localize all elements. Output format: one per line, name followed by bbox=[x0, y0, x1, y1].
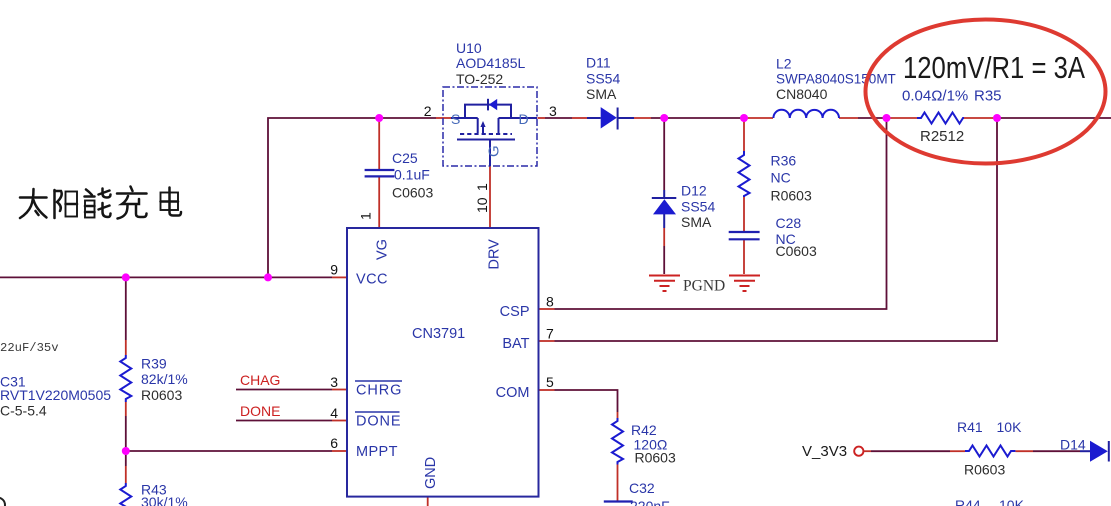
svg-text:BAT: BAT bbox=[502, 336, 529, 352]
svg-text:C28: C28 bbox=[776, 215, 802, 231]
char 电 bbox=[168, 188, 171, 211]
svg-text:0.1uF: 0.1uF bbox=[394, 167, 430, 183]
char 能 bbox=[86, 190, 92, 196]
svg-text:C0603: C0603 bbox=[392, 185, 433, 201]
wire red stub into U10 S bbox=[436, 117, 451, 119]
svg-text:8: 8 bbox=[546, 294, 554, 310]
svg-text:5: 5 bbox=[546, 374, 554, 390]
wire R39 top lead bbox=[125, 277, 127, 340]
svg-text:CSP: CSP bbox=[500, 304, 530, 320]
svg-text:VCC: VCC bbox=[356, 272, 388, 288]
svg-text:SS54: SS54 bbox=[681, 199, 715, 215]
svg-text:L2: L2 bbox=[776, 55, 792, 71]
junction node R36 tap bbox=[740, 114, 748, 122]
svg-text:3: 3 bbox=[330, 374, 338, 390]
svg-text:3: 3 bbox=[549, 103, 557, 119]
svg-text:10: 10 bbox=[474, 197, 490, 213]
svg-text:SWPA8040S150MT: SWPA8040S150MT bbox=[776, 72, 896, 87]
resistor R42 bbox=[612, 418, 623, 465]
svg-text:9: 9 bbox=[330, 262, 338, 278]
capacitor C25 bbox=[365, 170, 395, 176]
svg-text:SMA: SMA bbox=[681, 214, 712, 230]
wire DRV gate bbox=[489, 166, 491, 228]
svg-text:PGND: PGND bbox=[683, 278, 725, 295]
wire C28 to ground bbox=[743, 240, 745, 274]
wire R35 leads bbox=[887, 117, 918, 119]
svg-text:C25: C25 bbox=[392, 150, 418, 166]
svg-text:R2512: R2512 bbox=[920, 128, 964, 145]
svg-text:R41: R41 bbox=[957, 419, 983, 435]
text 太阳能充电 hand-drawn bbox=[20, 187, 181, 219]
resistor R43 bbox=[120, 483, 131, 506]
char 阳 bbox=[53, 190, 56, 218]
svg-text:6: 6 bbox=[330, 435, 338, 451]
svg-text:R39: R39 bbox=[141, 356, 167, 372]
svg-text:R0603: R0603 bbox=[141, 387, 182, 403]
svg-text:0.04Ω/1%: 0.04Ω/1% bbox=[902, 88, 968, 105]
wire C25 top lead bbox=[378, 118, 380, 169]
resistor R41 bbox=[965, 446, 1015, 457]
svg-text:2: 2 bbox=[424, 103, 432, 119]
svg-text:D11: D11 bbox=[586, 55, 611, 71]
svg-text:R35: R35 bbox=[974, 88, 1002, 105]
junction node CSP/R35 left bbox=[883, 114, 891, 122]
svg-text:MPPT: MPPT bbox=[356, 444, 398, 460]
svg-text:C-5-5.4: C-5-5.4 bbox=[0, 403, 47, 419]
wire R41 to D14 bbox=[1015, 450, 1033, 452]
svg-text:G: G bbox=[485, 145, 502, 157]
junction node top C25 tap bbox=[375, 114, 383, 122]
resistor R36 bbox=[739, 151, 750, 197]
svg-text:R0603: R0603 bbox=[771, 188, 812, 204]
svg-text:V_3V3: V_3V3 bbox=[802, 443, 847, 460]
svg-text:CHAG: CHAG bbox=[240, 372, 280, 388]
svg-text:S: S bbox=[451, 111, 460, 127]
svg-text:D: D bbox=[519, 111, 529, 127]
transistor U10 dashed package box bbox=[443, 87, 537, 166]
svg-text:COM: COM bbox=[496, 385, 530, 401]
svg-text:U10: U10 bbox=[456, 40, 482, 56]
wire VCC row bbox=[0, 276, 332, 278]
svg-text:120mV/R1 = 3A: 120mV/R1 = 3A bbox=[903, 50, 1085, 85]
svg-text:VG: VG bbox=[374, 239, 390, 260]
junction node R39 bottom MPPT bbox=[122, 447, 130, 455]
svg-text:10K: 10K bbox=[999, 497, 1025, 506]
wire C25 bottom lead VG pin1 bbox=[378, 177, 380, 228]
junction node D11/D12 bbox=[660, 114, 668, 122]
wire CSP net pin8 bbox=[539, 308, 555, 310]
svg-text:SS54: SS54 bbox=[586, 70, 620, 86]
wire MPPT row bbox=[126, 450, 332, 452]
svg-text:TO-252: TO-252 bbox=[456, 71, 503, 87]
svg-text:1: 1 bbox=[474, 183, 490, 191]
wire top net from corner to U10 source bbox=[268, 118, 436, 277]
svg-text:SMA: SMA bbox=[586, 86, 617, 102]
capacitor C32 top plate bbox=[604, 500, 633, 502]
wire R36 branch bbox=[743, 118, 745, 151]
transistor U10 body diode bbox=[489, 99, 497, 110]
svg-text:CN8040: CN8040 bbox=[776, 86, 828, 102]
svg-text:DONE: DONE bbox=[356, 414, 402, 430]
svg-text:C32: C32 bbox=[629, 480, 655, 496]
wire CHAG net bbox=[236, 389, 332, 391]
svg-text:R0603: R0603 bbox=[964, 462, 1005, 478]
inductor L2 bbox=[773, 110, 839, 118]
wire GND pin bottom bbox=[427, 497, 429, 506]
svg-text:4: 4 bbox=[330, 405, 338, 421]
wire BAT net pin7 bbox=[539, 340, 555, 342]
svg-text:DRV: DRV bbox=[487, 239, 503, 270]
wire L2 to R35 bbox=[839, 117, 858, 119]
svg-text:R0603: R0603 bbox=[635, 450, 676, 466]
resistor R39 bbox=[120, 355, 131, 402]
diode D11 bbox=[601, 107, 617, 128]
svg-text:30k/1%: 30k/1% bbox=[141, 494, 188, 506]
svg-text:7: 7 bbox=[546, 326, 554, 342]
port circle bottom left bbox=[0, 498, 5, 506]
wire U10 drain to D11 bbox=[538, 117, 546, 119]
svg-text:R44: R44 bbox=[955, 497, 981, 506]
ground under C28 bbox=[729, 276, 760, 292]
capacitor C28 bbox=[729, 232, 760, 239]
wire COM net pin5 bbox=[539, 389, 555, 391]
wire D12 branch bbox=[663, 118, 665, 190]
wire R39 bottom lead to MPPT junction bbox=[125, 402, 127, 416]
resistor R35 bbox=[917, 113, 964, 124]
svg-text:22uF/35v: 22uF/35v bbox=[0, 341, 59, 355]
svg-text:220nF: 220nF bbox=[630, 498, 670, 506]
annotation ellipse red bbox=[866, 20, 1106, 164]
svg-text:CHRG: CHRG bbox=[356, 383, 402, 399]
svg-text:GND: GND bbox=[423, 457, 439, 489]
diode D14 bbox=[1090, 441, 1108, 462]
svg-text:RVT1V220M0505: RVT1V220M0505 bbox=[0, 387, 111, 403]
svg-text:CN3791: CN3791 bbox=[412, 326, 465, 342]
svg-text:C0603: C0603 bbox=[776, 243, 817, 259]
svg-text:D12: D12 bbox=[681, 183, 707, 199]
svg-text:D14: D14 bbox=[1060, 437, 1086, 453]
svg-text:NC: NC bbox=[771, 170, 791, 186]
svg-text:82k/1%: 82k/1% bbox=[141, 371, 188, 387]
transistor U10 PMOS symbol bbox=[451, 105, 537, 166]
char 充 bbox=[131, 187, 133, 192]
wire BAT+ to right edge bbox=[997, 117, 1111, 119]
svg-text:AOD4185L: AOD4185L bbox=[456, 55, 525, 71]
svg-text:DONE: DONE bbox=[240, 403, 280, 419]
diode D12 bbox=[653, 199, 676, 214]
ground PGND under D12 bbox=[649, 276, 680, 292]
wire D11 cathode to L2 bbox=[634, 117, 651, 119]
wire R43 top lead bbox=[125, 451, 127, 466]
char 太 bbox=[20, 196, 47, 199]
wire R42 to C32 bbox=[617, 465, 619, 502]
svg-text:1: 1 bbox=[358, 212, 374, 220]
junction node VCC corner bbox=[264, 273, 272, 281]
svg-text:R36: R36 bbox=[771, 153, 797, 169]
op-amp U1 CN3791 IC body bbox=[347, 228, 539, 497]
junction node R39 top bbox=[122, 273, 130, 281]
svg-text:10K: 10K bbox=[997, 419, 1023, 435]
transistor U10 arrow bbox=[480, 121, 485, 127]
junction node BAT/R35 right bbox=[993, 114, 1001, 122]
wire V_3V3 net bbox=[863, 450, 871, 452]
wire DONE net bbox=[236, 420, 332, 422]
